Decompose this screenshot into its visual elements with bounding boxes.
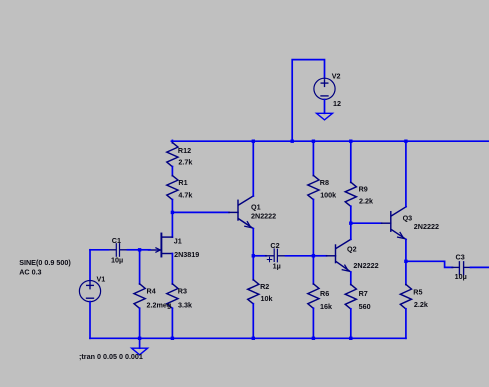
junction dot rail x253: [252, 140, 255, 143]
resistor R5: [400, 261, 411, 338]
wire Q1 emitter down to node B: [252, 229, 254, 256]
wire node F to C3: [406, 261, 453, 267]
wire main ground stem: [139, 338, 141, 348]
svg-text:2N2222: 2N2222: [414, 222, 439, 231]
svg-text:3.3k: 3.3k: [178, 300, 192, 309]
svg-text:10µ: 10µ: [111, 256, 123, 265]
svg-text:2.2k: 2.2k: [414, 300, 428, 309]
ground symbol main: [132, 348, 148, 355]
svg-text:1µ: 1µ: [273, 262, 281, 271]
resistor R3: [167, 284, 178, 339]
wire Q3 emitter to node F: [405, 239, 407, 261]
node E junction dot R9/Q2c/Q3b: [349, 222, 352, 225]
wire V1 bottom to rail: [89, 302, 91, 339]
node F junction dot Q3e/R5/C3: [404, 260, 407, 263]
wire node E to Q3 base: [351, 222, 382, 224]
svg-text:V2: V2: [332, 71, 341, 80]
resistor R2: [248, 256, 259, 338]
svg-text:2.2meg: 2.2meg: [147, 300, 172, 309]
wire Q3 collector to rail: [405, 141, 407, 207]
svg-text:Q1: Q1: [251, 202, 261, 211]
svg-text:R9: R9: [359, 184, 368, 193]
resistor R7: [345, 284, 356, 338]
wire C3 output to edge: [471, 266, 489, 268]
wire node D to Q2 base: [313, 255, 326, 257]
junction dot bottom x172: [171, 337, 174, 340]
wire J1 gate from C1 node: [140, 249, 150, 251]
wire C2 left: [253, 255, 266, 257]
svg-text:C1: C1: [112, 236, 121, 245]
svg-text:SINE(0 0.9 500): SINE(0 0.9 500): [19, 258, 71, 267]
svg-text:C3: C3: [456, 253, 465, 262]
svg-text:R4: R4: [147, 287, 156, 296]
svg-text:R5: R5: [413, 288, 422, 297]
svg-text:560: 560: [359, 302, 371, 311]
capacitor C2 polarized: [266, 249, 287, 262]
JFET J1: [149, 234, 173, 257]
svg-text:R7: R7: [359, 289, 368, 298]
voltage source V1: [79, 281, 100, 302]
junction dot rail x406: [404, 140, 407, 143]
resistor R9: [345, 141, 356, 223]
wire Q1 collector to rail: [252, 141, 254, 196]
junction dot bottom x253: [252, 337, 255, 340]
svg-text:R6: R6: [320, 289, 329, 298]
svg-text:V1: V1: [97, 275, 106, 284]
svg-text:2.2k: 2.2k: [359, 197, 373, 206]
transistor Q2: [327, 239, 351, 272]
junction dot rail x313: [312, 140, 315, 143]
svg-text:R1: R1: [178, 178, 187, 187]
resistor R6: [308, 256, 319, 338]
node C junction dot C1/R4/gate: [138, 248, 141, 251]
svg-text:J1: J1: [174, 236, 182, 245]
svg-text:2N2222: 2N2222: [251, 212, 276, 221]
svg-text:2.7k: 2.7k: [178, 158, 192, 167]
svg-text:R12: R12: [178, 146, 191, 155]
svg-text:Q3: Q3: [403, 214, 413, 223]
svg-text:12: 12: [333, 99, 341, 108]
svg-text:16k: 16k: [320, 302, 332, 311]
wire C2 right to node D: [286, 255, 314, 257]
svg-text:Q2: Q2: [347, 245, 357, 254]
svg-text:10µ: 10µ: [455, 272, 467, 281]
resistor R4: [134, 250, 145, 338]
resistor R1: [167, 176, 178, 213]
svg-text:10k: 10k: [261, 294, 273, 303]
svg-text:4.7k: 4.7k: [178, 191, 192, 200]
transistor Q3: [382, 207, 407, 240]
wire V1 top riser: [89, 250, 91, 281]
junction dot bottom x350: [349, 337, 352, 340]
ground symbol under V2: [317, 113, 333, 120]
junction dot rail x350: [349, 140, 352, 143]
capacitor C1: [108, 244, 128, 257]
node D junction dot R8/R6/C2: [312, 254, 315, 257]
node A junction dot R1/J1/Q1: [171, 211, 174, 214]
wire J1 source down to R3: [171, 254, 173, 285]
wire J1 drain up to node A: [171, 212, 173, 237]
node B junction dot Q1e/C2/R2: [252, 254, 255, 257]
wire Q2 emitter to R7: [350, 272, 352, 285]
junction dot rail x292: [291, 140, 294, 143]
resistor R12: [167, 140, 178, 175]
wire Q1 base from node A: [172, 211, 229, 213]
svg-text:R3: R3: [178, 287, 187, 296]
capacitor C3: [452, 262, 471, 275]
wire Q2 collector to node E: [350, 223, 352, 239]
junction dot bottom x139: [138, 337, 141, 340]
wire C1 left to V1: [90, 249, 109, 251]
svg-text:2N3819: 2N3819: [174, 250, 199, 259]
svg-text:;tran 0 0.05 0 0.001: ;tran 0 0.05 0 0.001: [79, 352, 143, 361]
svg-text:100k: 100k: [320, 191, 336, 200]
svg-text:R2: R2: [260, 282, 269, 291]
voltage source V2: [314, 78, 335, 99]
junction dot bottom x313: [312, 337, 315, 340]
svg-text:R8: R8: [320, 178, 329, 187]
svg-text:C2: C2: [270, 241, 279, 250]
svg-text:AC 0.3: AC 0.3: [19, 268, 41, 277]
wire V2 ground stem: [324, 100, 326, 114]
svg-text:2N2222: 2N2222: [353, 261, 378, 270]
resistor R8: [308, 141, 319, 256]
transistor Q1: [229, 196, 253, 229]
wire top supply rail: [171, 140, 489, 142]
wire V2 branch up-left from rail: [292, 60, 324, 142]
wire C1 right to node C: [128, 249, 140, 251]
wire bottom ground rail: [90, 337, 406, 339]
